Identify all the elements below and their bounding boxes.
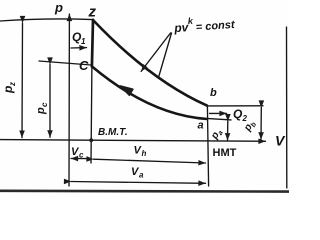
border bottom [0,190,289,193]
dimension line p_b [260,108,262,140]
curve a-c compression [92,67,207,120]
axis P (vertical) [68,14,70,186]
label p_c (rotated) [35,102,49,115]
axis V (horizontal) [0,140,266,142]
leader line 1 to expansion curve with arrowhead [141,33,170,71]
svg-text:p: p [54,0,63,15]
svg-text:z: z [88,4,97,21]
label p_z (rotated) [1,82,17,94]
dimension line p_c [49,65,51,138]
svg-text:a: a [198,120,204,132]
svg-text:b: b [210,87,217,99]
svg-text:1: 1 [81,37,86,46]
junction dot at B.M.T. on axis [89,138,93,142]
wire b-level line [209,105,264,107]
svg-text:= const: = const [195,19,236,34]
label p_a (rotated) [209,127,225,143]
svg-text:c: c [79,151,84,160]
arrowhead on compression curve pointing to c [120,86,133,96]
arrow Q2 [210,112,227,114]
dimension line Vc [71,158,89,160]
svg-text:h: h [142,149,147,158]
border right [286,27,288,188]
label p_b (rotated) [242,118,259,135]
curve z-b expansion pv^k [93,20,207,106]
svg-text:V: V [275,133,286,149]
dimension line Vh [94,159,206,163]
svg-text:C: C [79,58,89,73]
dimension line Va [71,182,206,184]
svg-text:2: 2 [242,114,248,123]
wire B.M.T. extension below c to below axis [90,67,93,164]
svg-text:c: c [40,102,49,107]
svg-text:В.М.Т.: В.М.Т. [98,127,128,138]
wire N.M.T. line b to below axis [207,106,208,186]
dimension line p_z [21,23,24,138]
svg-text:p: p [35,107,47,115]
wire c-level line [39,61,91,65]
wire top z-level line [0,19,93,21]
svg-text:a: a [139,171,144,180]
leader line 2 to curve [159,33,172,78]
node z-c line (B.M.T. thick segment) [92,20,93,67]
svg-text:Q: Q [233,107,243,121]
svg-text:z: z [8,82,17,87]
svg-text:k: k [187,16,194,26]
label pv^k = const [173,13,237,35]
wire a-level line [209,119,232,120]
svg-text:НМТ: НМТ [213,147,237,159]
arrow Q1 [71,47,87,49]
dimension line p_a [227,121,229,140]
